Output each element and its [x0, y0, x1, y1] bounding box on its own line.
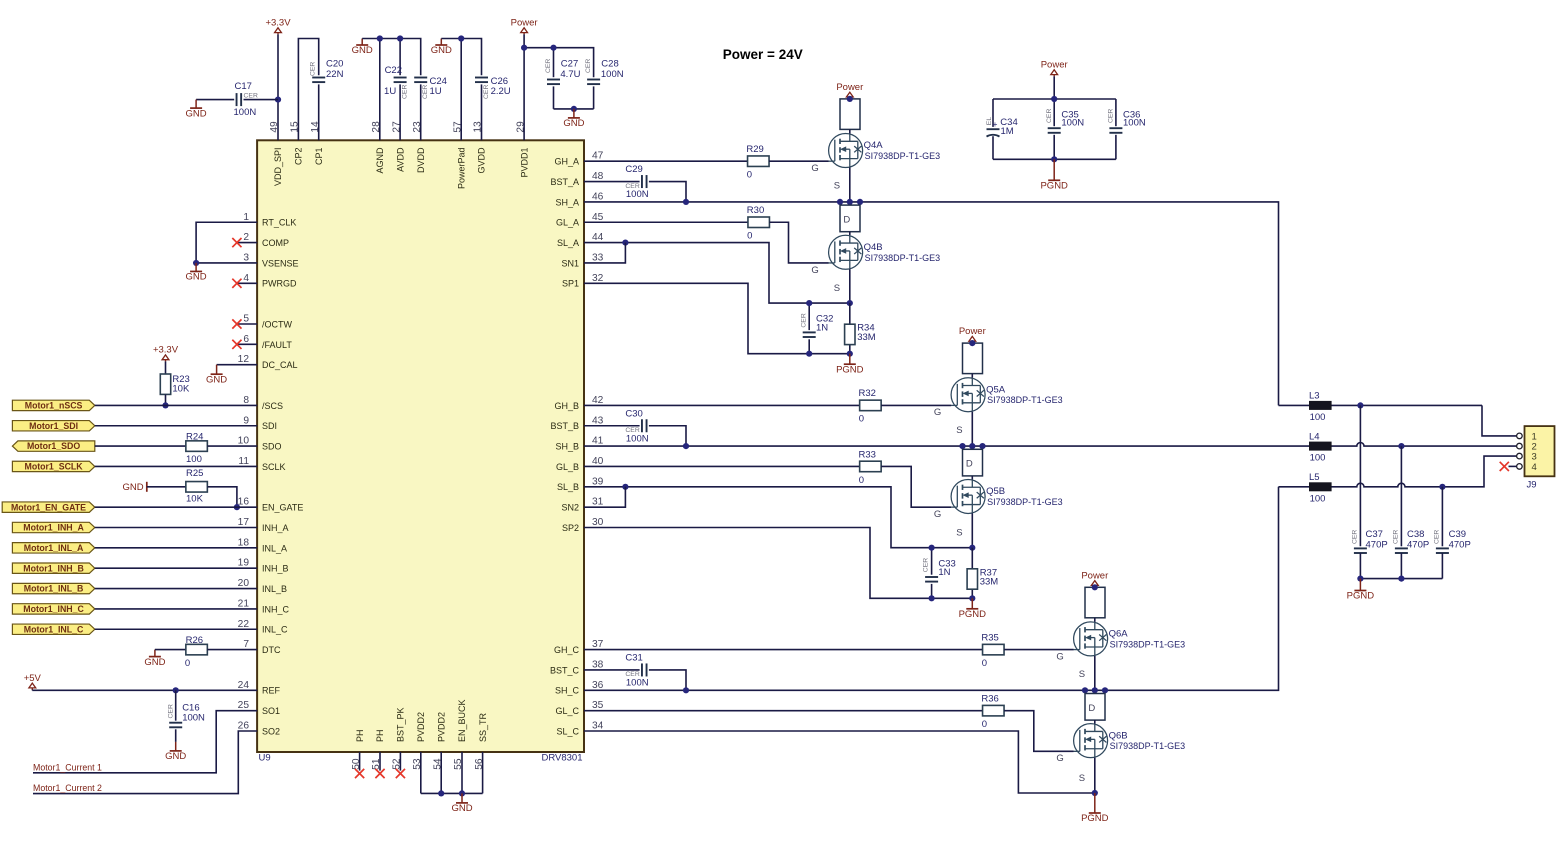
no-connect X pin 6 — [232, 340, 257, 349]
junction C33 top — [929, 545, 935, 551]
junction bottom rail pin54 — [438, 790, 444, 796]
svg-text:22N: 22N — [326, 69, 344, 80]
pin 20 INL_B label — [238, 578, 287, 594]
wire GVDD rail — [441, 39, 481, 141]
svg-text:C30: C30 — [625, 408, 642, 419]
svg-text:R29: R29 — [746, 144, 763, 155]
wire /SCS — [95, 404, 257, 406]
svg-text:40: 40 — [592, 456, 604, 467]
svg-text:SI7938DP-T1-GE3: SI7938DP-T1-GE3 — [1110, 639, 1186, 649]
pin 3 VSENSE label — [243, 252, 298, 268]
ground GND at AGND rail — [352, 39, 373, 57]
wire SL_C to Q6B source — [584, 731, 1095, 793]
wire Power to Q4A drain — [849, 99, 851, 107]
svg-text:C16: C16 — [182, 702, 199, 713]
svg-text:Motor1_SCLK: Motor1_SCLK — [25, 462, 84, 472]
svg-text:18: 18 — [238, 537, 250, 548]
svg-text:GND: GND — [431, 45, 452, 56]
label G of Q4B — [811, 265, 818, 276]
no-connect X pin 5 — [232, 319, 257, 328]
ground GND at R26 — [144, 650, 165, 668]
resistor R32 0 — [584, 388, 951, 425]
resistor R37 33M shunt — [967, 548, 998, 599]
capacitor C31 100N bootstrap — [584, 653, 686, 691]
wire SL net to shunt — [584, 487, 972, 548]
label DRV8301 — [541, 752, 582, 763]
wire SH_A phase output — [584, 202, 1279, 406]
svg-text:0: 0 — [185, 658, 190, 669]
port Motor1_SCLK — [12, 461, 94, 471]
wire INL_C — [95, 628, 257, 630]
junction C29 to SH — [683, 199, 689, 205]
svg-text:GL_A: GL_A — [556, 218, 579, 228]
svg-text:SDI: SDI — [262, 421, 277, 431]
svg-text:G: G — [811, 163, 818, 174]
IC U9 DRV8301 body — [257, 140, 584, 752]
svg-text:12: 12 — [238, 354, 250, 365]
svg-text:Motor1_nSCS: Motor1_nSCS — [25, 401, 83, 411]
pin 51 PH label — [371, 729, 385, 769]
junction SH row at Q4A source — [837, 199, 863, 205]
svg-text:100: 100 — [1310, 493, 1326, 504]
junction shunt top — [847, 300, 853, 306]
svg-text:PowerPad: PowerPad — [456, 148, 466, 190]
svg-text:G: G — [811, 265, 818, 276]
junction SH row at Q5A source — [959, 443, 985, 449]
junction VSENSE gnd — [193, 260, 199, 266]
ground GND at C16 — [165, 742, 186, 762]
pin 38 BST_C label — [550, 659, 604, 675]
junction C32 bottom — [806, 351, 812, 357]
ground PGND at Q6B — [1081, 793, 1109, 824]
svg-text:2.2U: 2.2U — [491, 86, 511, 97]
svg-text:INL_B: INL_B — [262, 584, 287, 594]
svg-text:GL_B: GL_B — [556, 462, 579, 472]
pin 2 of J9 — [1517, 442, 1537, 453]
svg-text:33M: 33M — [857, 332, 876, 343]
pin 12 DC_CAL label — [238, 354, 298, 370]
junction REF C16 — [173, 687, 179, 693]
svg-text:CER: CER — [310, 62, 317, 76]
label G of Q5A — [934, 407, 941, 418]
wire INL_B — [95, 588, 257, 590]
svg-text:Q4B: Q4B — [864, 242, 883, 253]
svg-text:SN2: SN2 — [561, 503, 579, 513]
transistor Q4B drain box D — [840, 205, 860, 232]
svg-text:44: 44 — [592, 232, 604, 243]
pin 37 GH_C label — [554, 639, 604, 655]
pin 13 GVDD label — [473, 121, 487, 174]
svg-text:C28: C28 — [601, 59, 618, 70]
pin 14 CP1 label — [310, 121, 324, 165]
pin 54 PVDD2 label — [432, 712, 446, 770]
svg-text:CER: CER — [401, 85, 408, 99]
svg-text:43: 43 — [592, 415, 604, 426]
svg-text:Motor1_Current 1: Motor1_Current 1 — [33, 762, 102, 772]
wire Power to Q5A drain — [971, 343, 973, 351]
svg-text:DC_CAL: DC_CAL — [262, 360, 298, 370]
junction EN_GATE R25 — [234, 504, 240, 510]
svg-text:COMP: COMP — [262, 238, 289, 248]
junction GVDD rail pin57 — [458, 35, 464, 41]
svg-text:PVDD2: PVDD2 — [416, 712, 426, 742]
svg-text:Motor1_INH_C: Motor1_INH_C — [23, 604, 84, 614]
svg-text:D: D — [1088, 703, 1095, 714]
transistor Q6B drain box D — [1085, 694, 1105, 721]
power Power at C34 bank — [1041, 60, 1068, 77]
svg-text:3: 3 — [243, 252, 249, 263]
svg-text:INH_C: INH_C — [262, 604, 290, 614]
junction AGND rail pin28 — [377, 35, 383, 41]
pin 4 PWRGD label — [243, 273, 297, 289]
svg-text:4: 4 — [1532, 462, 1537, 473]
svg-text:1N: 1N — [938, 567, 950, 578]
wire PVDD2/EN_BUCK/SS_TR gnd rail — [421, 752, 483, 793]
junction L5 output — [1439, 484, 1445, 490]
junction C31 to SH — [683, 687, 689, 693]
svg-text:D: D — [843, 214, 850, 225]
svg-text:S: S — [834, 181, 840, 192]
wire L5 row — [1279, 456, 1517, 487]
svg-text:PGND: PGND — [1081, 813, 1109, 824]
pin 1 of J9 — [1517, 431, 1537, 442]
svg-text:GH_C: GH_C — [554, 645, 580, 655]
wire AGND/AVDD/DVDD rail — [362, 39, 421, 141]
pin 53 PVDD2 label — [412, 712, 426, 770]
svg-text:G: G — [1056, 651, 1063, 662]
pin 11 SCLK label — [238, 456, 285, 472]
svg-text:DRV8301: DRV8301 — [541, 752, 582, 763]
wire INH_B — [95, 567, 257, 569]
pin 36 SH_C label — [555, 680, 604, 696]
transistor Q6A SI7938DP-T1-GE3 — [1073, 618, 1185, 691]
pin 52 BST_PK label — [392, 707, 406, 769]
svg-text:470P: 470P — [1407, 539, 1429, 550]
svg-text:22: 22 — [238, 619, 250, 630]
svg-text:Q4A: Q4A — [864, 140, 884, 151]
svg-text:100: 100 — [1310, 412, 1326, 423]
svg-text:0: 0 — [982, 658, 987, 669]
pin 4 of J9 — [1517, 462, 1537, 473]
svg-text:4.7U: 4.7U — [560, 69, 580, 80]
svg-text:CER: CER — [800, 313, 807, 327]
pin 27 AVDD label — [391, 121, 405, 172]
port Motor1_INH_C — [12, 604, 94, 614]
svg-text:R32: R32 — [859, 388, 876, 399]
power +5V at REF — [24, 673, 42, 691]
svg-text:S: S — [956, 528, 962, 539]
svg-text:RT_CLK: RT_CLK — [262, 218, 296, 228]
svg-text:100N: 100N — [1123, 117, 1146, 128]
port Motor1_INL_B — [12, 583, 94, 593]
capacitor C24 1U — [414, 76, 447, 99]
svg-text:C37: C37 — [1366, 529, 1383, 540]
transistor Q4A drain box — [840, 99, 860, 129]
svg-text:GND: GND — [165, 751, 186, 762]
svg-text:10: 10 — [238, 436, 250, 447]
label S of Q5A — [956, 425, 962, 436]
svg-text:CER: CER — [1392, 530, 1399, 544]
junction C33 bottom — [929, 595, 935, 601]
svg-text:Q6B: Q6B — [1109, 730, 1128, 741]
svg-text:CER: CER — [1108, 109, 1115, 123]
label U9 — [259, 752, 271, 763]
junction Power Q4A — [847, 96, 853, 102]
svg-text:SI7938DP-T1-GE3: SI7938DP-T1-GE3 — [1110, 741, 1186, 751]
inductor L3 100 — [1309, 391, 1332, 423]
wire INL_A — [95, 547, 257, 549]
svg-text:R25: R25 — [186, 468, 203, 479]
pin 8 /SCS label — [243, 395, 283, 411]
svg-text:46: 46 — [592, 191, 604, 202]
wire C34 bank rails — [993, 76, 1116, 159]
svg-text:L3: L3 — [1309, 391, 1320, 402]
svg-text:BST_A: BST_A — [550, 177, 579, 187]
wire VDD_SPI rail — [277, 34, 279, 140]
junction bank top — [1051, 96, 1057, 102]
svg-text:0: 0 — [859, 475, 864, 486]
junction bottom rail pin55 — [459, 790, 465, 796]
svg-text:CER: CER — [1351, 530, 1358, 544]
svg-text:R24: R24 — [186, 432, 203, 443]
svg-text:CER: CER — [585, 59, 592, 73]
svg-text:1U: 1U — [430, 86, 442, 97]
svg-text:PWRGD: PWRGD — [262, 279, 297, 289]
svg-text:/OCTW: /OCTW — [262, 319, 292, 329]
junction PVDD1 branch — [521, 45, 527, 51]
svg-text:SO2: SO2 — [262, 726, 280, 736]
svg-text:25: 25 — [238, 700, 250, 711]
power Power (pin 29) — [511, 18, 538, 35]
svg-text:2: 2 — [243, 232, 249, 243]
svg-text:CER: CER — [244, 93, 258, 100]
capacitor C35 100N — [1046, 109, 1084, 133]
svg-text:47: 47 — [592, 151, 604, 162]
junction SH row at Q6A source — [1082, 687, 1108, 693]
svg-text:Motor1_INL_B: Motor1_INL_B — [24, 584, 84, 594]
svg-text:34: 34 — [592, 721, 604, 732]
pin 18 INL_A label — [238, 537, 287, 553]
svg-text:Motor1_INH_B: Motor1_INH_B — [23, 563, 84, 573]
svg-text:26: 26 — [238, 721, 250, 732]
svg-text:CP2: CP2 — [294, 148, 304, 166]
svg-text:EL: EL — [986, 117, 993, 126]
svg-text:SH_B: SH_B — [555, 442, 579, 452]
svg-text:4: 4 — [243, 273, 249, 284]
svg-text:REF: REF — [262, 686, 281, 696]
junction Power Q5A — [969, 340, 975, 346]
svg-text:SL_A: SL_A — [557, 238, 579, 248]
svg-text:SH_A: SH_A — [555, 197, 579, 207]
junction C27/C28 gnd — [571, 106, 577, 112]
svg-text:R26: R26 — [186, 635, 203, 646]
svg-text:Q5A: Q5A — [986, 384, 1006, 395]
pin 15 CP2 label — [290, 121, 304, 165]
svg-text:33M: 33M — [980, 576, 999, 587]
capacitor C29 100N bootstrap — [584, 164, 686, 202]
junction Q6B source — [1092, 790, 1098, 796]
svg-text:L4: L4 — [1309, 431, 1320, 442]
junction L3 output — [1357, 402, 1363, 408]
capacitor C20 22N — [310, 59, 344, 83]
label S of Q6A — [1079, 669, 1085, 680]
wire DC_CAL — [217, 364, 258, 366]
pin 29 PVDD1 label — [515, 121, 529, 178]
pin 3 of J9 — [1517, 452, 1537, 463]
junction C30 to SH — [683, 443, 689, 449]
svg-text:D: D — [966, 459, 973, 470]
svg-text:100N: 100N — [1061, 117, 1084, 128]
no-connect X pin 2 — [232, 238, 257, 247]
svg-text:PGND: PGND — [1347, 591, 1375, 602]
svg-text:SN1: SN1 — [561, 258, 579, 268]
capacitor C26 2.2U — [475, 76, 511, 99]
svg-text:8: 8 — [243, 395, 249, 406]
pin 39 SL_B label — [557, 476, 604, 492]
svg-text:INH_B: INH_B — [262, 564, 289, 574]
junction C32 top — [806, 300, 812, 306]
port Motor1_SDO — [12, 441, 94, 451]
svg-text:5: 5 — [243, 314, 249, 325]
ground GND at RT_CLK/VSENSE — [186, 263, 207, 283]
wire REF — [32, 689, 257, 691]
pin 10 SDO label — [238, 436, 282, 452]
svg-text:BST_PK: BST_PK — [396, 707, 406, 742]
svg-text:/FAULT: /FAULT — [262, 340, 292, 350]
junction rail C37 — [1357, 576, 1363, 582]
pin 1 RT_CLK label — [243, 212, 296, 228]
inductor L4 100 — [1309, 431, 1332, 463]
power +3.3V (pin 49) — [265, 18, 291, 35]
pin 9 SDI label — [243, 415, 277, 431]
note Power = 24V — [723, 47, 803, 62]
svg-text:GND: GND — [122, 482, 143, 493]
capacitor C37 470P — [1351, 405, 1387, 578]
capacitor C36 100N — [1108, 109, 1146, 133]
label S of Q6B — [1079, 773, 1085, 784]
svg-text:100: 100 — [186, 454, 202, 465]
svg-text:VDD_SPI: VDD_SPI — [273, 148, 283, 187]
svg-text:36: 36 — [592, 680, 604, 691]
svg-text:VSENSE: VSENSE — [262, 258, 299, 268]
svg-text:C29: C29 — [625, 164, 642, 175]
pin 16 EN_GATE label — [238, 497, 304, 513]
svg-text:100: 100 — [1310, 453, 1326, 464]
wire SH_B phase output — [584, 443, 1517, 447]
svg-text:CER: CER — [545, 59, 552, 73]
svg-text:/SCS: /SCS — [262, 401, 283, 411]
svg-text:AGND: AGND — [375, 147, 385, 174]
junction /SCS R23 — [162, 402, 168, 408]
junction shunt bottom — [969, 595, 975, 601]
svg-text:U9: U9 — [259, 752, 271, 763]
ground GND at DC_CAL — [206, 365, 227, 386]
svg-text:48: 48 — [592, 171, 604, 182]
svg-text:EN_BUCK: EN_BUCK — [457, 699, 467, 742]
junction L4 output — [1398, 443, 1404, 449]
wire SL net to shunt — [584, 243, 850, 304]
svg-text:AVDD: AVDD — [395, 147, 405, 172]
pin 50 PH label — [351, 729, 365, 769]
pin 57 PowerPad label — [452, 121, 466, 189]
svg-text:R36: R36 — [981, 693, 998, 704]
pin 40 GL_B label — [556, 456, 604, 472]
svg-text:GND: GND — [144, 657, 165, 668]
svg-text:SI7938DP-T1-GE3: SI7938DP-T1-GE3 — [865, 253, 941, 263]
svg-text:PH: PH — [355, 729, 365, 742]
ground GND at bottom rail — [451, 793, 472, 814]
pin 45 GL_A label — [556, 212, 604, 228]
svg-text:GND: GND — [451, 803, 472, 814]
port Motor1_INH_B — [12, 563, 94, 573]
pin 2 COMP label — [243, 232, 289, 248]
power Power at Q4A — [836, 82, 863, 99]
resistor R23 10K — [160, 361, 190, 405]
port Motor1_INL_A — [12, 543, 94, 553]
pin 26 SO2 label — [238, 721, 280, 737]
svg-text:Motor1_INH_A: Motor1_INH_A — [23, 523, 84, 533]
svg-text:GND: GND — [352, 45, 373, 56]
svg-text:SP2: SP2 — [562, 523, 579, 533]
wire PVDD1 rail — [524, 34, 594, 140]
port Motor1_nSCS — [12, 400, 94, 410]
svg-text:6: 6 — [243, 334, 249, 345]
capacitor C17 100N — [196, 81, 278, 118]
pin 46 SH_A label — [555, 191, 603, 207]
svg-text:PVDD2: PVDD2 — [436, 712, 446, 742]
svg-text:SI7938DP-T1-GE3: SI7938DP-T1-GE3 — [987, 395, 1063, 405]
junction shunt bottom — [847, 351, 853, 357]
svg-text:470P: 470P — [1366, 539, 1388, 550]
wire SN net — [584, 243, 625, 263]
capacitor C33 1N — [923, 548, 956, 599]
svg-text:C38: C38 — [1407, 529, 1424, 540]
svg-text:SDO: SDO — [262, 442, 282, 452]
svg-text:Q5B: Q5B — [986, 486, 1005, 497]
wire SO1 Motor1_Current 1 — [33, 711, 257, 773]
svg-text:S: S — [1079, 773, 1085, 784]
pin 41 SH_B label — [555, 436, 603, 452]
no-connect X bottom pin — [396, 752, 405, 778]
svg-text:GND: GND — [186, 272, 207, 283]
svg-text:S: S — [1079, 669, 1085, 680]
resistor R24 100 — [95, 432, 257, 465]
resistor R35 0 — [584, 632, 1074, 669]
svg-text:41: 41 — [592, 436, 604, 447]
svg-text:32: 32 — [592, 273, 604, 284]
svg-text:7: 7 — [243, 639, 249, 650]
svg-text:GH_B: GH_B — [554, 401, 579, 411]
ground GND at C27/C28 — [563, 109, 584, 129]
wire INH_A — [95, 527, 257, 529]
junction SL/SN — [622, 240, 628, 246]
svg-text:GND: GND — [563, 118, 584, 129]
svg-text:C27: C27 — [561, 59, 578, 70]
pin 24 REF label — [238, 680, 281, 696]
transistor Q6B SI7938DP-T1-GE3 — [1073, 720, 1185, 793]
svg-text:GL_C: GL_C — [555, 706, 579, 716]
pin 42 GH_B label — [554, 395, 603, 411]
svg-text:PGND: PGND — [1040, 181, 1068, 192]
wire SCLK — [95, 465, 257, 467]
svg-text:G: G — [934, 509, 941, 520]
svg-text:DTC: DTC — [262, 645, 281, 655]
port Motor1_EN_GATE — [2, 502, 95, 512]
wire Power to Q6A drain — [1094, 587, 1096, 595]
pin 49 VDD_SPI label — [269, 121, 283, 186]
svg-text:1: 1 — [243, 212, 249, 223]
label S of Q5B — [956, 528, 962, 539]
